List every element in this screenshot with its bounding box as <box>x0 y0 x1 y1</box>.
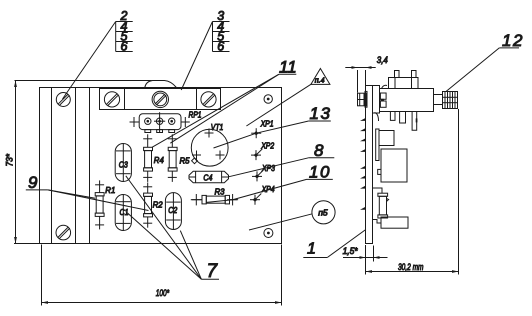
pad cross R1 top <box>95 184 104 186</box>
pad cross R5 bottom <box>168 176 177 178</box>
svg-text:1,5*: 1,5* <box>343 246 358 256</box>
leader 13 <box>214 121 309 148</box>
svg-text:R5: R5 <box>180 155 190 165</box>
capacitor C3 <box>115 144 131 182</box>
pot wire loop <box>382 85 388 88</box>
terminal screw middle <box>152 91 168 107</box>
callout 8 <box>309 141 334 160</box>
pad cross RP1 left <box>130 117 139 127</box>
callout 10 <box>307 162 333 181</box>
leader 12 <box>446 48 499 92</box>
pad cross VT1 top <box>205 129 214 138</box>
leader 2 <box>63 22 116 100</box>
terminal block <box>100 89 221 110</box>
resistor R1 <box>95 180 104 229</box>
bracket line 3 <box>89 88 91 244</box>
svg-text:6: 6 <box>121 39 128 53</box>
dimension 100 <box>42 245 282 306</box>
pad cross R4 bottom <box>143 176 152 178</box>
bolt head <box>358 93 367 106</box>
pin XP1 <box>251 128 261 138</box>
svg-text:RP1: RP1 <box>189 110 202 120</box>
dimension 30.2 <box>366 109 459 275</box>
svg-text:XP1: XP1 <box>260 119 274 129</box>
bracket line 1 <box>51 88 53 244</box>
svg-text:10: 10 <box>309 162 331 181</box>
leader 9b <box>48 190 149 211</box>
capacitor C2 <box>165 193 181 230</box>
svg-text:R1: R1 <box>105 185 115 195</box>
leader 7c <box>180 231 201 280</box>
pad cross R3 right <box>227 194 238 205</box>
component B (side) <box>381 149 407 182</box>
callout flag 3 <box>213 9 230 53</box>
svg-text:73*: 73* <box>5 154 16 167</box>
dimension 1.5 <box>343 246 388 262</box>
pot top bracket <box>389 71 419 89</box>
potentiometer body <box>380 89 434 112</box>
svg-text:8: 8 <box>314 141 324 160</box>
bump on top edge <box>145 81 177 88</box>
leader p4 <box>246 84 311 126</box>
board top raised strip edge <box>15 80 152 82</box>
leader 7a <box>126 176 202 279</box>
svg-text:C4: C4 <box>203 173 212 183</box>
component B tab <box>378 169 381 174</box>
callout 7 <box>201 261 219 282</box>
key diamond VT1 <box>192 158 198 164</box>
warning triangle p4 <box>311 69 330 85</box>
leader n5 <box>249 214 312 230</box>
knurled knob <box>443 91 458 108</box>
dimension 3.4 <box>345 55 388 93</box>
svg-text:R3: R3 <box>215 187 225 197</box>
leader 1 <box>327 230 366 258</box>
pot pin 2 <box>400 112 406 124</box>
capacitor C4 <box>189 171 229 182</box>
resistor R5 <box>168 134 177 182</box>
washer <box>365 91 367 107</box>
board edge (side view) <box>366 86 373 244</box>
pad cross VT1 left <box>192 151 201 160</box>
pad cross VT1 right <box>216 151 225 160</box>
callout flag 2 <box>116 9 133 53</box>
component D lead <box>373 220 382 224</box>
pad cross R1 bottom <box>95 224 104 226</box>
callout 11 <box>279 58 297 77</box>
transistor VT1 <box>191 129 228 166</box>
svg-text:C2: C2 <box>168 205 177 215</box>
svg-text:1: 1 <box>307 240 316 257</box>
svg-text:9: 9 <box>28 173 38 192</box>
svg-text:C1: C1 <box>120 207 129 217</box>
note circle n5 <box>312 201 335 224</box>
capacitor lead (side) <box>373 188 383 193</box>
svg-text:C3: C3 <box>119 160 128 170</box>
leader 10 <box>207 179 307 202</box>
pot terminal tabs <box>380 93 386 107</box>
svg-text:VT1: VT1 <box>211 122 224 132</box>
svg-text:12: 12 <box>502 31 524 50</box>
callout 13 <box>309 104 332 123</box>
component D (side) <box>381 217 408 228</box>
svg-text:п.4: п.4 <box>315 78 325 85</box>
trimmer RP1 <box>137 112 183 132</box>
lead bend below bushing <box>375 113 379 122</box>
callout 9 <box>26 173 48 192</box>
bracket line 2 <box>75 88 77 244</box>
pin XP3 <box>252 170 263 181</box>
mounting hole top-right <box>264 95 272 103</box>
component A (side) <box>379 131 394 146</box>
dimension 73 <box>5 81 40 244</box>
pad cross R2 top <box>143 186 152 188</box>
capacitor C1 <box>115 195 131 231</box>
svg-text:XP2: XP2 <box>260 141 274 151</box>
pot shaft <box>434 95 443 105</box>
svg-text:R4: R4 <box>154 155 164 165</box>
potentiometer bushing <box>373 86 380 114</box>
pad cross R5 top <box>168 138 177 140</box>
leader 7b <box>126 212 201 280</box>
svg-text:100*: 100* <box>156 288 170 299</box>
bracket screw bottom <box>56 225 71 240</box>
leader 8 <box>229 158 310 177</box>
pin 3 solder tick <box>416 118 418 122</box>
resistor R3 <box>192 195 237 204</box>
pot pin 3 <box>412 112 417 131</box>
svg-text:11: 11 <box>279 58 297 77</box>
svg-text:3,4: 3,4 <box>377 55 388 65</box>
bracket screw top <box>56 93 70 107</box>
callout 1 <box>303 240 327 257</box>
svg-text:13: 13 <box>310 104 332 123</box>
svg-text:R2: R2 <box>153 199 163 209</box>
resistor R2 <box>144 183 153 228</box>
mounting hole bottom-right <box>264 229 273 238</box>
leader 11a <box>170 74 278 143</box>
pad cross R4 top <box>143 138 152 140</box>
terminal screw right <box>201 92 216 107</box>
capacitor (side) <box>378 193 389 218</box>
pin XP2 <box>251 149 262 160</box>
standoff bar <box>376 129 379 161</box>
svg-text:п5: п5 <box>318 208 328 218</box>
pad cross RP1 right <box>181 117 190 127</box>
leader 11b <box>152 74 279 147</box>
pin XP4 <box>250 194 261 205</box>
pot pin 1 <box>390 112 395 121</box>
svg-text:6: 6 <box>217 39 224 53</box>
pad cross R3 left <box>191 194 202 205</box>
callout 12 <box>499 31 524 50</box>
pad cross R2 bottom <box>143 222 152 224</box>
resistor R4 <box>144 134 153 182</box>
leader 9a <box>48 190 96 198</box>
board outline (front view) <box>40 88 282 244</box>
leader 3 <box>181 22 212 91</box>
solder fillet triangles <box>360 118 366 210</box>
svg-text:30,2 mm: 30,2 mm <box>398 262 424 272</box>
terminal screw left <box>104 92 119 107</box>
